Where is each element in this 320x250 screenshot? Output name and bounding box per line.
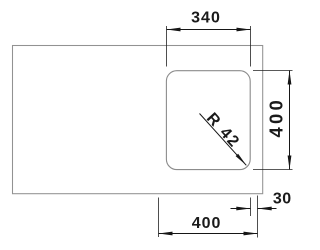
extension line left of bottom 400	[158, 198, 160, 238]
dimension line 30 left tail	[231, 208, 251, 210]
dimension line 30 right tail	[258, 208, 277, 210]
svg-text:400: 400	[192, 215, 222, 232]
leader line R42	[200, 114, 247, 166]
extension line top of right 400	[253, 70, 293, 72]
arrow down right 400	[288, 156, 292, 170]
dimension line bottom 400	[159, 233, 258, 235]
svg-text:340: 340	[191, 9, 221, 26]
arrow right bottom 400	[244, 232, 258, 236]
extension line left of 340	[166, 26, 168, 67]
arrow right 340	[237, 28, 251, 32]
countertop outline	[13, 46, 263, 194]
svg-text:400: 400	[266, 97, 287, 137]
extension line right of bottom 400 and 30	[257, 196, 259, 238]
arrow left 340	[167, 28, 181, 32]
extension line bottom of right 400	[253, 169, 293, 171]
dimension line right 400	[289, 71, 291, 170]
arrow 30 left (pointing right)	[236, 207, 250, 211]
arrow left bottom 400	[159, 232, 173, 236]
extension line right of 340	[250, 26, 252, 67]
sink bowl	[166, 71, 250, 170]
svg-text:30: 30	[273, 191, 292, 208]
svg-text:R 42: R 42	[203, 110, 243, 152]
extension line bowl edge for 30	[250, 198, 252, 217]
dimension line 340	[167, 29, 251, 31]
arrow R42	[236, 154, 247, 165]
arrow up right 400	[288, 71, 292, 85]
arrow 30 right (pointing left)	[258, 207, 272, 211]
